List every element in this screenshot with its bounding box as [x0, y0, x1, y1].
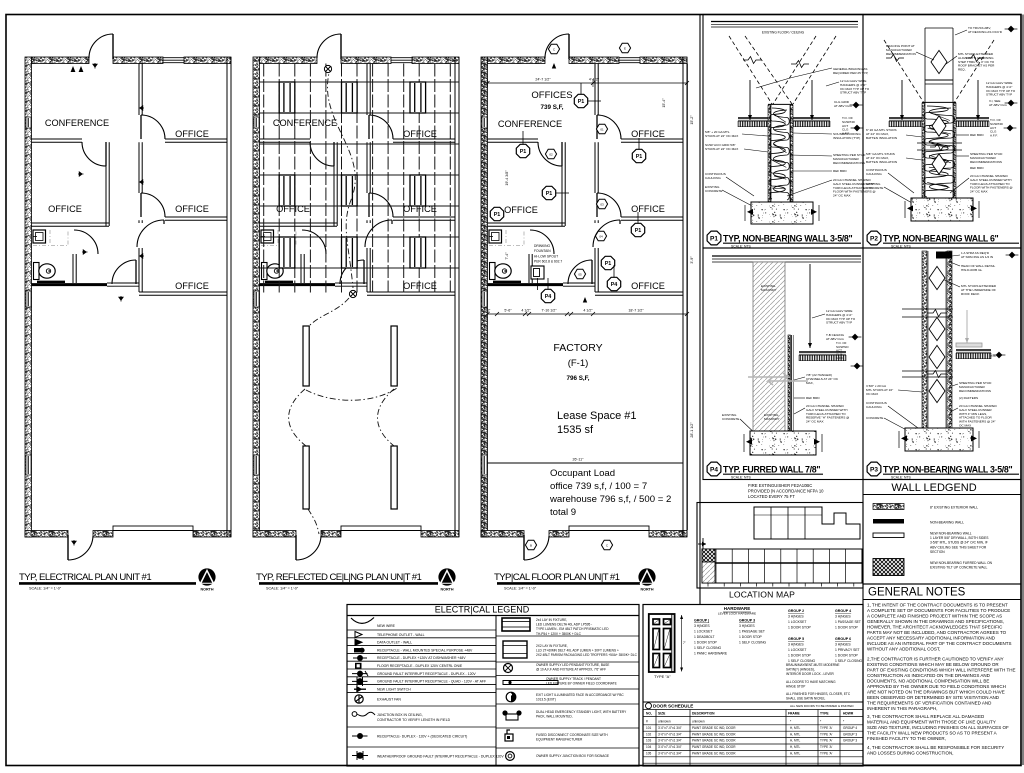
svg-text:NEW WIRE: NEW WIRE — [377, 624, 396, 628]
svg-text:FRAME: FRAME — [788, 712, 801, 716]
restroom sink — [261, 230, 274, 243]
svg-text:03: 03 — [600, 202, 604, 206]
svg-text:P2: P2 — [870, 235, 878, 242]
svg-text:HDWR: HDWR — [843, 712, 854, 716]
svg-text:1 DOOR STOP: 1 DOOR STOP — [788, 654, 812, 658]
accessibility clearance dashed — [33, 230, 68, 246]
svg-text:GROUP |: GROUP | — [694, 619, 709, 623]
svg-text:STRUCT ABV TYP: STRUCT ABV TYP — [840, 91, 866, 95]
svg-text:NORTH: NORTH — [200, 587, 213, 591]
svg-text:CONFERENCE: CONFERENCE — [45, 118, 109, 128]
top dimension line — [488, 82, 688, 84]
grab bar — [265, 281, 293, 283]
svg-text:PROVIDED |N ACCORDANCE NFPA 10: PROVIDED |N ACCORDANCE NFPA 10 — [748, 488, 824, 493]
svg-text:01: 01 — [600, 127, 604, 131]
detail panel title bar — [707, 462, 721, 476]
svg-text:TYPE "A": TYPE "A" — [654, 674, 671, 679]
svg-text:GROUP 3: GROUP 3 — [739, 619, 755, 623]
svg-text:1013.5 (EXIT): 1013.5 (EXIT) — [536, 698, 556, 702]
drinking fountain symbol — [531, 266, 544, 279]
suspended ceiling — [889, 117, 922, 119]
divider line plans/details — [699, 15, 701, 605]
restroom door swing arc — [302, 230, 326, 254]
legend new non-bearing wall — [873, 533, 904, 538]
electrical legend box — [347, 605, 639, 767]
svg-text:H, MTL: H, MTL — [790, 726, 801, 730]
svg-text:P1: P1 — [546, 191, 553, 197]
svg-text:1 PASSAGE SET: 1 PASSAGE SET — [739, 630, 765, 634]
svg-text:796 S,F,: 796 S,F, — [566, 375, 589, 382]
svg-text:INHERENT IN THIS PARAGRAPH,: INHERENT IN THIS PARAGRAPH, — [867, 706, 938, 711]
existing masonry wall hatched — [753, 262, 785, 431]
svg-text:15'-2": 15'-2" — [690, 115, 694, 125]
legend left rows — [347, 629, 496, 631]
map upper building — [754, 507, 860, 539]
svg-text:NO,: NO, — [646, 712, 652, 716]
bottom dimension line — [488, 313, 688, 315]
svg-text:1 DOOR STOP: 1 DOOR STOP — [835, 654, 859, 658]
legend non-bearing wall — [873, 519, 904, 524]
svg-text:TYP, NON-BEAR|NG WALL 3-5/8": TYP, NON-BEAR|NG WALL 3-5/8" — [723, 233, 853, 243]
svg-text:OFFICE: OFFICE — [504, 205, 538, 215]
electrical wall marks — [139, 106, 145, 110]
svg-text:P4: P4 — [710, 466, 718, 473]
overhead sectional door — [341, 526, 421, 531]
svg-text:OFFICE: OFFICE — [48, 204, 82, 214]
door dim arrows — [681, 615, 683, 672]
svg-text:3-5/8" MTL, STUDS @ 24" O/C MI: 3-5/8" MTL, STUDS @ 24" O/C MIN, IF — [930, 541, 988, 545]
svg-text:ELECTR|CAL LEGEND: ELECTR|CAL LEGEND — [435, 605, 530, 615]
svg-text:5'-6": 5'-6" — [504, 309, 512, 313]
wall legend box — [863, 480, 1021, 585]
svg-text:DATA OUTLET - WALL: DATA OUTLET - WALL — [377, 641, 412, 645]
svg-text:3'-0"x7'-0"x1 3/4": 3'-0"x7'-0"x1 3/4" — [658, 752, 682, 756]
svg-text:1 DOOR STOP: 1 DOOR STOP — [788, 626, 812, 630]
svg-text:NORTH: NORTH — [640, 587, 653, 591]
bottom exit door leaf — [295, 535, 297, 560]
corridor wall middle — [366, 142, 368, 193]
svg-text:@ 10 A,F,F AND FIXTURE AT APPR: @ 10 A,F,F AND FIXTURE AT APPROX, 7'6" A… — [536, 668, 606, 672]
svg-text:SECTION: SECTION — [930, 550, 945, 554]
svg-text:24" OC MAX: 24" OC MAX — [806, 420, 824, 424]
door tags hexagons — [548, 44, 559, 54]
conference door swing arc — [538, 142, 562, 166]
exterior hatched left wall — [253, 57, 260, 537]
warehouse door wall stub — [570, 282, 595, 284]
exit fixtures at entry — [71, 66, 76, 72]
svg-text:BATTEN INSULATION: BATTEN INSULATION — [866, 160, 897, 164]
svg-text:A COMPLETE AND FINISHED PROJEC: A COMPLETE AND FINISHED PROJECT WITHIN T… — [867, 614, 1002, 619]
svg-text:MASONRY: MASONRY — [764, 417, 780, 421]
svg-text:GROUP 3: GROUP 3 — [843, 732, 857, 736]
svg-text:05: 05 — [578, 272, 582, 276]
pendant fixture symbol — [504, 664, 513, 673]
svg-text:APPROVED BY THE OWNER DUE TO F: APPROVED BY THE OWNER DUE TO FIELD CONDI… — [867, 684, 1006, 689]
svg-text:OC MAX: OC MAX — [959, 423, 971, 427]
hanger wires — [901, 80, 903, 120]
svg-text:ALL FINISHED FOR HINGES, CLOSE: ALL FINISHED FOR HINGES, CLOSER, ETC — [786, 692, 851, 696]
svg-text:office 739 s,f, / 100 = 7: office 739 s,f, / 100 = 7 — [550, 481, 647, 492]
exit fixture symbol 1 — [502, 618, 530, 631]
office-left bottom wall — [488, 222, 566, 224]
svg-text:1 DOOR STOP: 1 DOOR STOP — [739, 635, 763, 639]
corridor warehouse door swing arc — [112, 260, 136, 284]
office2/office3 wall — [393, 216, 455, 218]
office2/office3 wall — [165, 216, 227, 218]
svg-text:H, MTL: H, MTL — [790, 745, 801, 749]
exit fixture symbol 2 — [503, 641, 527, 658]
conference door leaf — [105, 142, 107, 166]
svg-text:GENERALLY SHOWN IN THE DRAWING: GENERALLY SHOWN IN THE DRAWINGS AND SPEC… — [867, 619, 1004, 624]
legend furred wall — [873, 559, 904, 576]
wall stud strip — [922, 251, 927, 428]
svg-text:3 H|NGES: 3 H|NGES — [694, 624, 710, 628]
restroom sink — [33, 230, 46, 243]
hanger wires with arrows — [749, 80, 751, 120]
office 1 door leaf — [140, 115, 142, 139]
svg-text:2,THE CONTRACTOR IS FURTHER CA: 2,THE CONTRACTOR IS FURTHER CAUTIONED TO… — [867, 657, 1004, 662]
svg-text:DUAL HEAD EMERGENCY STANDBY LI: DUAL HEAD EMERGENCY STANDBY LIGHT, WITH … — [536, 710, 627, 714]
svg-text:OWNER SUPPLY JUNCTION BOX FOR: OWNER SUPPLY JUNCTION BOX FOR SIGNAGE — [536, 754, 609, 758]
wall tags P1/P4 octagons — [574, 94, 587, 107]
entry door swing arc — [317, 34, 341, 58]
grab bar — [493, 281, 521, 283]
svg-text:FLOOR RECEPTACLE - DUPLEX 120V: FLOOR RECEPTACLE - DUPLEX 120V CENTRL ON… — [377, 664, 463, 668]
entry door leaf — [340, 34, 342, 59]
svg-text:4'-1/2": 4'-1/2" — [589, 78, 600, 82]
svg-text:FINISHED FACILITY TO THE OWNER: FINISHED FACILITY TO THE OWNER, — [867, 736, 946, 741]
office 3 bottom wall — [367, 291, 455, 293]
exterior top wall — [488, 57, 546, 64]
svg-text:WEATHERPROOF GROUND FAULT |NTE: WEATHERPROOF GROUND FAULT |NTERRUPT RECE… — [377, 755, 504, 759]
svg-text:103: 103 — [646, 739, 651, 743]
right demising wall — [454, 57, 456, 537]
svg-text:739 S,F,: 739 S,F, — [540, 104, 563, 111]
bottom exit door swing arc — [296, 536, 321, 560]
accessibility clearance dashed — [489, 230, 524, 246]
svg-text:NORTH: NORTH — [440, 587, 453, 591]
svg-text:1 LOCKSET: 1 LOCKSET — [788, 620, 806, 624]
svg-text:CAULKING: CAULKING — [866, 405, 882, 409]
svg-text:E: E — [624, 46, 626, 50]
emergency light symbol — [506, 714, 518, 720]
entry door swing arc — [89, 34, 113, 58]
restroom bottom wall — [260, 283, 336, 286]
office 1 door leaf — [596, 115, 598, 139]
exterior bottom wall — [253, 531, 296, 538]
svg-text:ACCEPT ANY NECESSARY ADDITIONA: ACCEPT ANY NECESSARY ADDITIONAL INFORMAT… — [867, 636, 996, 641]
right demising wall — [682, 57, 684, 537]
svg-text:DESCRIPTION: DESCRIPTION — [692, 712, 715, 716]
svg-text:RECEPTACLE - WALL MOUNTED SPEC: RECEPTACLE - WALL MOUNTED SPECIAL PURPOS… — [377, 648, 473, 652]
map arrow — [698, 541, 706, 544]
svg-text:AT SPACING AS 1/2 IN: AT SPACING AS 1/2 IN — [961, 255, 993, 259]
brace dashed lines — [884, 40, 924, 103]
svg-text:ABV CEILING SEE THIS SHEET FOR: ABV CEILING SEE THIS SHEET FOR — [930, 545, 987, 549]
corridor wall upper (office 1) — [594, 64, 596, 116]
svg-text:REF BRD: REF BRD — [970, 133, 984, 137]
svg-text:PER 602.8 & 602.7: PER 602.8 & 602.7 — [534, 260, 562, 264]
svg-text:TYP, ELECTRICAL PLAN UNIT #1: TYP, ELECTRICAL PLAN UNIT #1 — [19, 572, 151, 583]
svg-text:ROOF DECK: ROOF DECK — [961, 292, 980, 296]
svg-text:3'-9": 3'-9" — [690, 256, 694, 264]
svg-text:AT DECKING AS OCC'D: AT DECKING AS OCC'D — [968, 30, 1003, 34]
svg-text:PAINT GRADE SC WD, DOOR: PAINT GRADE SC WD, DOOR — [692, 726, 736, 730]
north arrow — [438, 568, 455, 585]
svg-text:OFFICE: OFFICE — [276, 204, 310, 214]
svg-text:3 H|NGES: 3 H|NGES — [739, 624, 755, 628]
general notes box — [863, 584, 1021, 765]
title underline thick — [497, 582, 640, 585]
svg-text:REF BRD: REF BRD — [970, 166, 984, 170]
svg-text:P4: P4 — [611, 282, 618, 288]
furring channel — [788, 335, 790, 431]
svg-text:RECOMMENDATIONS: RECOMMENDATIONS — [959, 389, 991, 393]
svg-text:BATTEN INSULATION: BATTEN INSULATION — [866, 136, 897, 140]
svg-text:REF BRD: REF BRD — [833, 169, 847, 173]
svg-text:GROUP 4: GROUP 4 — [835, 609, 851, 613]
svg-text:TYPE 'A': TYPE 'A' — [820, 739, 833, 743]
footing — [911, 198, 973, 221]
svg-text:CONSTRUCTION AS INDICATED ON T: CONSTRUCTION AS INDICATED ON THE DRAWING… — [867, 673, 991, 678]
office 3 bottom wall — [139, 291, 227, 293]
svg-text:24'-7 1/2": 24'-7 1/2" — [535, 78, 551, 82]
stud wall with insulation — [768, 105, 771, 202]
svg-text:P4: P4 — [545, 294, 552, 300]
svg-text:GENERAL NOTES: GENERAL NOTES — [868, 587, 966, 599]
svg-text:GROUP 6: GROUP 6 — [835, 637, 851, 641]
svg-text:LED LUMENS DELTA 40L ADP LP595: LED LUMENS DELTA 40L ADP LP595 - — [536, 623, 592, 627]
svg-text:P3: P3 — [870, 466, 878, 473]
svg-text:LLD 2T+60MN DELT 40L ADP LUMEN: LLD 2T+60MN DELT 40L ADP LUMEN + 30FT LU… — [536, 649, 619, 653]
svg-text:P1: P1 — [578, 99, 585, 105]
office-left bottom wall — [260, 222, 338, 224]
legend right rows — [496, 635, 639, 637]
ceiling fans — [324, 65, 331, 72]
conference door swing arc — [82, 142, 106, 166]
conference bottom wall — [260, 138, 311, 140]
svg-text:TYP, NON-BEAR|NG WALL 6": TYP, NON-BEAR|NG WALL 6" — [883, 233, 999, 243]
svg-text:ALL DOORS TO HAVE MATCHING: ALL DOORS TO HAVE MATCHING — [786, 680, 836, 684]
svg-text:24" OC MAX: 24" OC MAX — [970, 190, 988, 194]
svg-text:TYP, REFLECTED CE|L|NG PLAN UN: TYP, REFLECTED CE|L|NG PLAN UN|T #1 — [256, 572, 422, 583]
exterior bottom wall — [25, 531, 68, 538]
corridor wall lower — [138, 220, 140, 223]
detail panel P4 border — [703, 248, 863, 480]
office1/office2 wall — [165, 138, 227, 140]
exit light symbol — [506, 692, 516, 702]
svg-text:TYP. FURRED WALL 7/8": TYP. FURRED WALL 7/8" — [723, 464, 820, 474]
svg-text:RECOMMENDATION: RECOMMENDATION — [886, 52, 916, 56]
svg-text:RECEPTACLE - DUPLEX +120V AT D: RECEPTACLE - DUPLEX +120V AT DISHWASHER … — [377, 656, 466, 660]
misc marks — [552, 63, 556, 69]
svg-text:GROUP 5: GROUP 5 — [788, 637, 804, 641]
svg-text:EXIT LIGHT ILLUMINATED FACE IN: EXIT LIGHT ILLUMINATED FACE IN ACCORDANC… — [536, 693, 624, 697]
corridor wall middle — [594, 142, 596, 193]
svg-text:04: 04 — [599, 234, 603, 238]
svg-text:3'-0"x7'-0"x1 3/4": 3'-0"x7'-0"x1 3/4" — [658, 745, 682, 749]
svg-text:PART OF EXISTING CONDITIONS WH: PART OF EXISTING CONDITIONS WHICH WILL I… — [867, 668, 1016, 673]
break symbols — [902, 308, 953, 310]
left wall window marks — [26, 117, 31, 128]
svg-text:1 DOOR STOP: 1 DOOR STOP — [835, 626, 859, 630]
svg-text:1 PRIVACY SET: 1 PRIVACY SET — [835, 648, 860, 652]
svg-text:AT ABV CLG: AT ABV CLG — [989, 103, 1007, 107]
storefront window in top wall — [163, 57, 184, 59]
svg-text:3 H|NGES: 3 H|NGES — [835, 643, 851, 647]
svg-text:1, THE INTENT OF THE CONTRACT: 1, THE INTENT OF THE CONTRACT DOCUMENTS … — [867, 603, 1008, 608]
svg-text:HI-LOW SPOUT: HI-LOW SPOUT — [534, 254, 558, 258]
svg-text:OFFICE: OFFICE — [631, 281, 665, 291]
exterior bottom wall — [481, 531, 524, 538]
svg-text:4, THE CONTRACTOR SHALL BE RES: 4, THE CONTRACTOR SHALL BE RESPONSIBLE F… — [867, 745, 1004, 750]
conference door swing arc — [310, 142, 334, 166]
corridor warehouse door swing arc — [568, 260, 592, 284]
svg-text:unknown: unknown — [692, 720, 705, 724]
svg-text:1 DOOR STOP: 1 DOOR STOP — [694, 641, 718, 645]
svg-text:unknown: unknown — [658, 720, 671, 724]
svg-text:REF BRD: REF BRD — [806, 396, 820, 400]
svg-text:7'-4": 7'-4" — [505, 252, 509, 260]
svg-text:SCALE: 1/4" = 1'-0": SCALE: 1/4" = 1'-0" — [266, 587, 299, 591]
entry door leaf — [568, 34, 570, 59]
svg-text:RECEPTACLE- DUPLEX - 120V + (D: RECEPTACLE- DUPLEX - 120V + (DEDICATED C… — [377, 735, 467, 739]
left wall window marks — [482, 117, 487, 128]
warehouse door wall stub — [342, 282, 367, 284]
svg-text:INCLUDE AS AN INTEGRAL PART OF: INCLUDE AS AN INTEGRAL PART OF THE CONTR… — [867, 641, 1011, 646]
svg-text:LED FIXTURE BY OWNER FIELD COO: LED FIXTURE BY OWNER FIELD COORDINATE — [546, 682, 617, 686]
svg-text:OWNER SUPPLY LED PENDANT FIXTU: OWNER SUPPLY LED PENDANT FIXTURE, BASE — [536, 663, 609, 667]
svg-text:15'-4": 15'-4" — [662, 98, 666, 108]
lease split line — [488, 462, 684, 464]
svg-text:STUDS AT 24" OC MAX: STUDS AT 24" OC MAX — [705, 147, 738, 151]
svg-text:OFFICE: OFFICE — [403, 281, 437, 291]
svg-text:18'-7 1/2": 18'-7 1/2" — [628, 309, 644, 313]
svg-text:FOUNTAIN: FOUNTAIN — [534, 249, 551, 253]
svg-text:3'-0"x7'-0"x1 3/4": 3'-0"x7'-0"x1 3/4" — [658, 732, 682, 736]
svg-text:total 9: total 9 — [550, 507, 576, 518]
svg-text:P1: P1 — [636, 154, 643, 160]
office-left right wall — [561, 142, 563, 226]
svg-text:TYPE 'A': TYPE 'A' — [820, 726, 833, 730]
corridor warehouse door leaf — [363, 260, 365, 284]
corridor wall lower — [366, 220, 368, 223]
svg-text:STUDS AT 24" OC MAX: STUDS AT 24" OC MAX — [705, 134, 738, 138]
office2/office3 wall — [621, 216, 683, 218]
svg-text:TYPE 'A': TYPE 'A' — [820, 732, 833, 736]
corridor wall middle — [138, 142, 140, 193]
office 2 door swing arc — [141, 193, 165, 217]
conference door leaf — [333, 142, 335, 166]
svg-text:REQ,: REQ, — [958, 68, 966, 72]
svg-text:STRUCT ABV TYP: STRUCT ABV TYP — [826, 321, 852, 325]
svg-text:104: 104 — [646, 745, 651, 749]
svg-text:DOCUMENTS, NO ADDITIONAL COMPE: DOCUMENTS, NO ADDITIONAL COMPENSATION WI… — [867, 679, 989, 684]
svg-text:HINGE STOP: HINGE STOP — [786, 684, 805, 688]
restroom door jamb wall — [528, 254, 530, 283]
suspended ceiling left — [738, 117, 768, 119]
office1/office2 wall — [393, 138, 455, 140]
svg-text:2': 2' — [488, 309, 491, 313]
svg-text:P1: P1 — [605, 261, 612, 267]
corridor wall lower — [594, 220, 596, 223]
svg-text:WALL LEDGEND: WALL LEDGEND — [891, 482, 976, 494]
svg-text:HARDWARE: HARDWARE — [724, 606, 751, 611]
svg-text:NEW LIGHT SWITCH: NEW LIGHT SWITCH — [377, 687, 411, 691]
svg-text:FUSED DISCONNECT COORDINATE SI: FUSED DISCONNECT COORDINATE SIZE WITH — [536, 733, 608, 737]
light fixtures 2x4 troffers — [279, 82, 295, 113]
svg-text:OFFICES: OFFICES — [531, 90, 572, 101]
door schedule table — [643, 701, 863, 703]
svg-text:DOOR SCHEDULE: DOOR SCHEDULE — [653, 704, 693, 709]
svg-text:INSULATION (TYP): INSULATION (TYP) — [833, 136, 860, 140]
svg-text:2X2 4BLT PARISM PACKAGING LED: 2X2 4BLT PARISM PACKAGING LED TROFFERS +… — [536, 653, 638, 657]
svg-text:FIRE EXTINGUISHER FE2A10BC: FIRE EXTINGUISHER FE2A10BC — [748, 483, 812, 488]
svg-text:MATERIAL AND EQUIPMENT WITH TH: MATERIAL AND EQUIPMENT WITH THOSE OF LIK… — [867, 720, 996, 725]
svg-text:RECOMMENDATIONS: RECOMMENDATIONS — [970, 160, 1002, 164]
svg-text:A.F.F.: A.F.F. — [990, 134, 998, 138]
svg-text:TYPE 'A': TYPE 'A' — [820, 745, 833, 749]
svg-text:OFFICE: OFFICE — [403, 204, 437, 214]
corridor warehouse door swing arc — [340, 260, 364, 284]
office-left bottom wall — [32, 222, 110, 224]
office-left right wall — [105, 142, 107, 226]
svg-text:7': 7' — [683, 641, 686, 645]
svg-text:CONCRETE: CONCRETE — [722, 417, 739, 421]
corridor warehouse door leaf — [135, 260, 137, 284]
svg-text:CONCRETE: CONCRETE — [705, 189, 722, 193]
switch wiring dashed curves — [327, 66, 355, 288]
warehouse strip lights — [303, 326, 309, 386]
vertical dimension texts — [505, 170, 509, 186]
toilet — [34, 263, 40, 280]
svg-text:warehouse 796 s,f, / 500 = 2: warehouse 796 s,f, / 500 = 2 — [549, 494, 671, 505]
location map box — [697, 503, 863, 589]
svg-text:GROUP 2: GROUP 2 — [788, 609, 804, 613]
svg-text:AND LOSSES DURING CONSTRUCTION: AND LOSSES DURING CONSTRUCTION, — [867, 751, 954, 756]
svg-text:LOCATION MAP: LOCATION MAP — [729, 589, 795, 599]
door schedule box — [643, 605, 863, 767]
office1/office2 wall — [621, 138, 683, 140]
detail panel title bar — [707, 231, 721, 245]
svg-text:(F-1): (F-1) — [568, 358, 589, 369]
svg-text:7'-10 1/2": 7'-10 1/2" — [541, 309, 557, 313]
svg-text:TELEPHONE OUTLET - WALL: TELEPHONE OUTLET - WALL — [377, 633, 425, 637]
suspended ceiling right — [799, 351, 846, 353]
office-left right wall — [333, 142, 335, 226]
svg-text:P1: P1 — [635, 228, 642, 234]
svg-text:DRINKING: DRINKING — [534, 244, 551, 248]
footing — [751, 202, 813, 224]
svg-text:V.I.F: V.I.F — [990, 354, 996, 358]
svg-text:A.F.F.: A.F.F. — [836, 356, 844, 360]
corridor wall upper (office 1) — [366, 64, 368, 116]
svg-text:1 LAYER 5/8" DRYWALL, BOTH SID: 1 LAYER 5/8" DRYWALL, BOTH SIDES — [930, 536, 989, 540]
restroom bottom wall — [488, 283, 564, 286]
svg-text:NEW NON-BEARING FURRED WALL ON: NEW NON-BEARING FURRED WALL ON — [930, 561, 993, 565]
office 2 door leaf — [140, 193, 142, 217]
office 3 door swing arc — [365, 220, 392, 247]
stud above to structure — [924, 28, 926, 103]
svg-text:MAX,: MAX, — [806, 381, 814, 385]
svg-text:TH-P54 + 120V + 3500K + DLC: TH-P54 + 120V + 3500K + DLC — [536, 632, 582, 636]
svg-text:1535 sf: 1535 sf — [557, 424, 594, 436]
legend left symbols — [351, 618, 374, 624]
corridor warehouse door leaf — [591, 260, 593, 284]
svg-text:INTERIOR DOOR LOCK - LEVER: INTERIOR DOOR LOCK - LEVER — [786, 672, 835, 676]
restroom sink — [489, 230, 502, 243]
disconnect symbol — [505, 734, 513, 741]
